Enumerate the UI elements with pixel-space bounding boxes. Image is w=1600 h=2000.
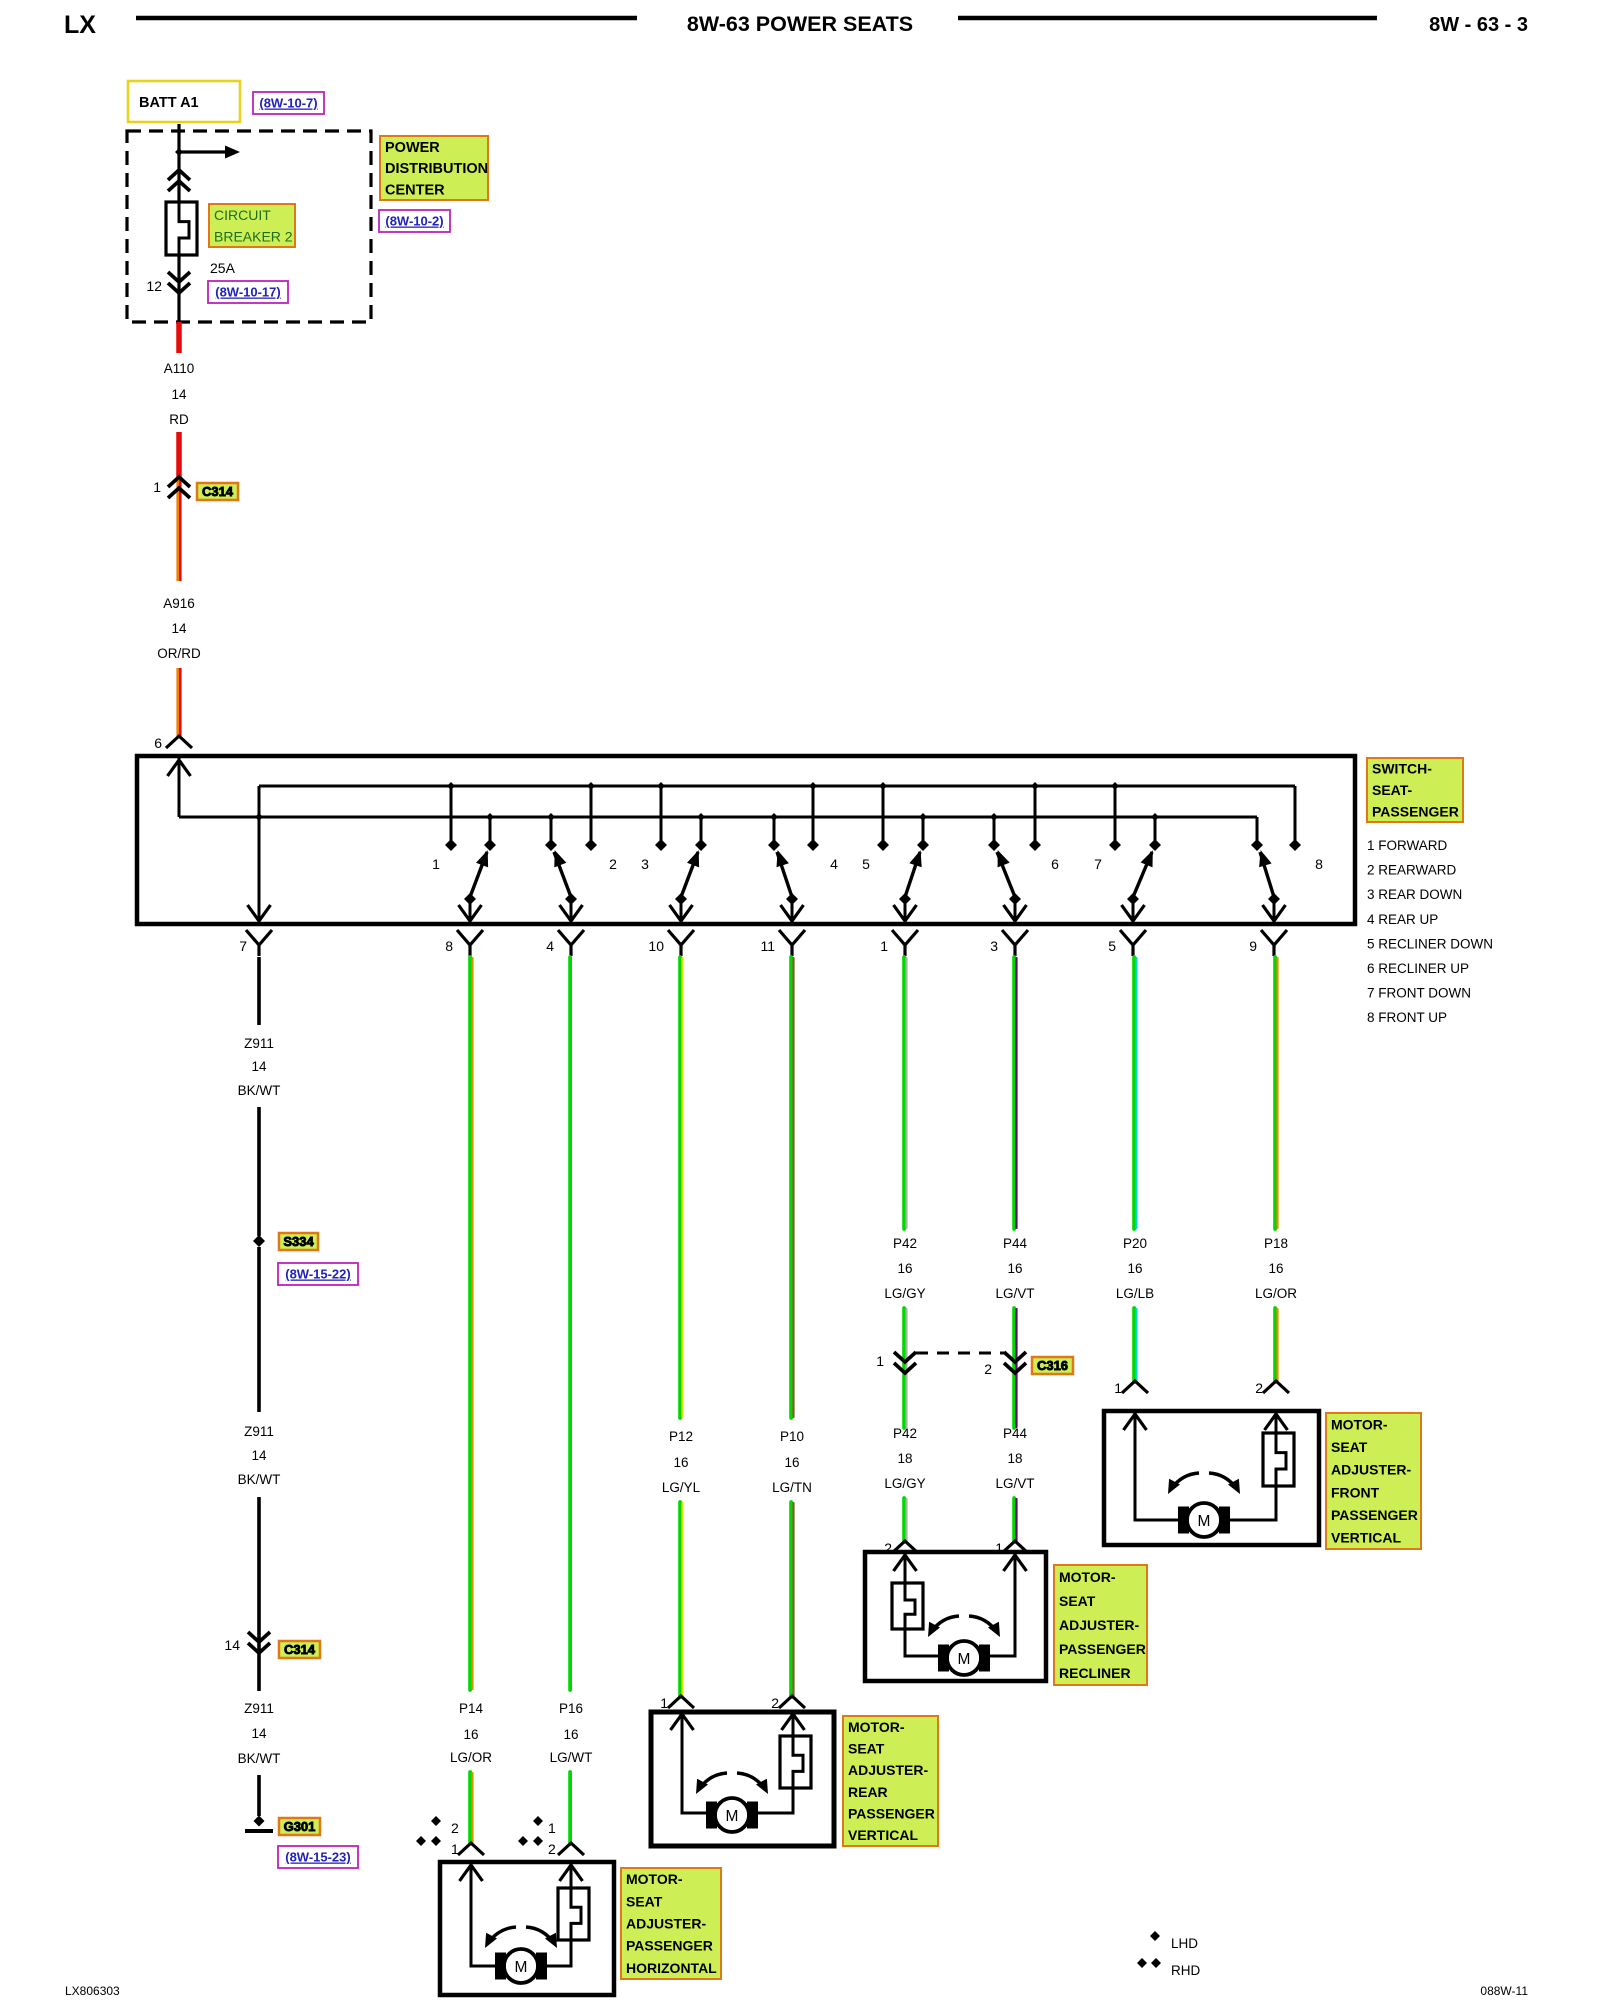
wire P44 18 segment 4 (1014, 1498, 1016, 1542)
wire Z911 segment 4 (257, 1497, 261, 1691)
connector tag C314 (197, 483, 238, 500)
svg-text:BK/WT: BK/WT (238, 1751, 281, 1766)
svg-text:2: 2 (771, 1695, 779, 1711)
svg-text:CENTER: CENTER (385, 183, 445, 199)
connector C314 pin 1 terminal (153, 477, 190, 498)
svg-text:VERTICAL: VERTICAL (848, 1827, 918, 1843)
switch 1: feed contact from lower bus (484, 813, 496, 851)
wire P10 segment 2 (791, 1502, 793, 1697)
switch 6: feed contact from lower bus (988, 813, 1000, 851)
recliner motor rotation arrows (928, 1616, 1000, 1637)
svg-text:M: M (1198, 1513, 1211, 1530)
recliner motor internal wiring pin 2 + breaker (892, 1554, 949, 1656)
svg-text:3: 3 (990, 938, 998, 954)
motor input terminal pin 1 (front vertical) (1114, 1380, 1148, 1396)
svg-text:(8W-15-23): (8W-15-23) (285, 1850, 350, 1865)
wire P10 16 LG/TN segment 1 (791, 957, 793, 1418)
svg-text:P42: P42 (893, 1426, 917, 1441)
wire P20 segment 2 (1134, 1308, 1136, 1382)
switch legend list (1367, 838, 1493, 1025)
wire P42 18 segment 4 (904, 1498, 906, 1542)
svg-text:25A: 25A (210, 260, 236, 276)
svg-text:S334: S334 (283, 1234, 314, 1249)
connector terminals (double chevron) above circuit breaker (168, 170, 190, 191)
motor input terminal pin 1 (recliner) (995, 1540, 1028, 1556)
svg-text:8: 8 (1315, 856, 1323, 872)
svg-text:HORIZONTAL: HORIZONTAL (626, 1960, 717, 1976)
lower bus end drop contact (1251, 817, 1263, 851)
svg-text:MOTOR-: MOTOR- (626, 1871, 683, 1887)
svg-text:BK/WT: BK/WT (238, 1083, 281, 1098)
svg-text:ADJUSTER-: ADJUSTER- (848, 1762, 928, 1778)
svg-text:1: 1 (880, 938, 888, 954)
wire: battery feed into PDC (177, 124, 180, 152)
switch 4: feed contact from lower bus (768, 813, 780, 851)
label MOTOR-SEAT ADJUSTER-PASSENGER HORIZONTAL (621, 1868, 721, 1979)
switch output pin 4 terminal (546, 930, 584, 956)
switch 5: throw label 5 (862, 856, 870, 872)
svg-text:4: 4 (546, 938, 554, 954)
svg-text:PASSENGER: PASSENGER (1372, 803, 1459, 819)
svg-text:SWITCH-: SWITCH- (1372, 761, 1432, 777)
switch 7: movable pole and arm to pin 5 (1122, 850, 1153, 921)
wire A916 14 OR/RD upper segment (178, 480, 181, 581)
rear vertical motor internal wiring pin 2 + breaker (757, 1713, 811, 1813)
throw label 8 (1315, 856, 1323, 872)
switch pin 6 terminal (154, 735, 192, 751)
svg-text:16: 16 (784, 1455, 799, 1470)
svg-text:14: 14 (224, 1637, 240, 1653)
svg-text:6: 6 (1051, 856, 1059, 872)
svg-text:(8W-15-22): (8W-15-22) (285, 1267, 350, 1282)
svg-text:1 FORWARD: 1 FORWARD (1367, 838, 1448, 853)
switch pin 7 output terminal (239, 930, 272, 956)
switch 3: movable pole and arm to pin 10 (670, 850, 700, 921)
svg-text:14: 14 (251, 1726, 267, 1741)
wire A916 lower segment (178, 668, 181, 736)
svg-text:VERTICAL: VERTICAL (1331, 1530, 1401, 1546)
switch 5: stationary contact from upper bus (throw 5) (877, 782, 889, 851)
svg-text:1: 1 (432, 856, 440, 872)
svg-text:16: 16 (1127, 1261, 1142, 1276)
reference (8W-15-22) (278, 1263, 358, 1285)
switch 1: movable pole and arm to pin 8 (459, 850, 489, 921)
svg-text:16: 16 (1007, 1261, 1022, 1276)
svg-text:LG/GY: LG/GY (884, 1476, 925, 1491)
ground G301 symbol (245, 1816, 273, 1832)
label POWER DISTRIBUTION CENTER (380, 136, 488, 200)
switch 6: stationary contact from upper bus (throw 6) (1029, 782, 1041, 851)
connector terminals (double chevron) at PDC output (168, 272, 190, 293)
svg-text:LG/OR: LG/OR (450, 1750, 492, 1765)
connector C314 lower, pin 14 (224, 1632, 270, 1653)
svg-text:P44: P44 (1003, 1236, 1028, 1251)
svg-text:P14: P14 (459, 1701, 484, 1716)
label 25A rating (210, 260, 236, 276)
wire P14 segment 2 (470, 1772, 472, 1844)
wire label Z911 14 BK/WT (1) (238, 1036, 281, 1098)
connector tag C316 (1032, 1357, 1073, 1374)
switch output pin 5 terminal (1108, 930, 1146, 956)
wire P14 16 LG/OR segment 1 (470, 957, 472, 1690)
switch 3: throw label 3 (641, 856, 649, 872)
svg-text:5: 5 (862, 856, 870, 872)
motor box MOTOR-SEAT ADJUSTER-PASSENGER HORIZONTAL (440, 1862, 614, 1995)
svg-text:P42: P42 (893, 1236, 917, 1251)
svg-text:PASSENGER: PASSENGER (1059, 1641, 1146, 1657)
svg-text:6: 6 (154, 735, 162, 751)
switch output pin 10 terminal (648, 930, 694, 956)
switch 4: movable pole and arm to pin 11 (777, 850, 804, 921)
svg-text:6 RECLINER UP: 6 RECLINER UP (1367, 961, 1469, 976)
LHD/RHD pin markers at P14 (416, 1816, 459, 1857)
motor box MOTOR-SEAT ADJUSTER-PASSENGER RECLINER (865, 1552, 1046, 1681)
switch output pin 3 terminal (990, 930, 1028, 956)
svg-text:8 FRONT UP: 8 FRONT UP (1367, 1010, 1447, 1025)
svg-text:P10: P10 (780, 1429, 804, 1444)
svg-text:2: 2 (609, 856, 617, 872)
upper bus end drop contact, throw 8 (1289, 786, 1301, 851)
svg-text:LG/VT: LG/VT (995, 1286, 1034, 1301)
svg-text:PASSENGER: PASSENGER (626, 1938, 713, 1954)
svg-text:LG/VT: LG/VT (995, 1476, 1034, 1491)
svg-text:PASSENGER: PASSENGER (1331, 1507, 1418, 1523)
connector C316 pin 1 terminal (876, 1352, 916, 1373)
svg-text:G301: G301 (284, 1819, 316, 1834)
ground tag G301 (279, 1818, 320, 1835)
wire P12 16 LG/YL segment 1 (680, 957, 682, 1418)
svg-text:MOTOR-: MOTOR- (1059, 1569, 1116, 1585)
svg-text:CIRCUIT: CIRCUIT (214, 207, 271, 223)
wire label P44 16 LG/VT (995, 1236, 1034, 1301)
rear vertical motor internal wiring pin 1 (671, 1713, 708, 1813)
svg-text:A916: A916 (163, 596, 195, 611)
switch 1: stationary contact from upper bus (throw 1) (445, 782, 457, 851)
svg-text:16: 16 (673, 1455, 688, 1470)
front vertical motor rotation arrows (1168, 1473, 1240, 1494)
svg-text:RHD: RHD (1171, 1963, 1200, 1978)
svg-text:C314: C314 (284, 1642, 316, 1657)
reference (8W-10-17) (208, 281, 288, 303)
label MOTOR-SEAT ADJUSTER-REAR PASSENGER VERTICAL (843, 1716, 938, 1846)
wire P16 16 LG/WT segment 1 (568, 957, 572, 1690)
svg-text:P44: P44 (1003, 1426, 1028, 1441)
svg-text:16: 16 (563, 1727, 578, 1742)
wire label Z911 14 BK/WT (2) (238, 1424, 281, 1487)
wire label P14 16 LG/OR (450, 1701, 492, 1765)
footer drawing number 088W-11 (1480, 1984, 1528, 1998)
label CIRCUIT BREAKER 2 (209, 204, 295, 247)
switch 7: stationary contact from upper bus (throw 7) (1109, 782, 1121, 851)
switch 7: throw label 7 (1094, 856, 1102, 872)
wire P18 segment 2 (1275, 1308, 1277, 1382)
wire Z911 from pin 7, segment 1 (257, 957, 261, 1025)
rear vertical motor rotation arrows (696, 1773, 768, 1794)
wire A110 lower segment (176, 432, 182, 477)
svg-text:PASSENGER: PASSENGER (848, 1806, 935, 1822)
svg-text:2: 2 (1255, 1380, 1263, 1396)
svg-text:ADJUSTER-: ADJUSTER- (1331, 1462, 1411, 1478)
feed wire from pin 6 to lower bus (168, 758, 1258, 817)
legend RHD marker (1137, 1958, 1200, 1978)
svg-text:1: 1 (876, 1353, 884, 1369)
motor input terminal (horizontal, P16) (558, 1843, 584, 1855)
return bus (upper) to pin 7 (248, 786, 1296, 921)
svg-text:16: 16 (1268, 1261, 1283, 1276)
svg-text:SEAT: SEAT (626, 1893, 663, 1909)
svg-text:C316: C316 (1037, 1358, 1068, 1373)
motor box MOTOR-SEAT ADJUSTER-REAR PASSENGER VERTICAL (651, 1712, 834, 1846)
switch 2: throw label 2 (609, 856, 617, 872)
wire P44 16-18 segment 2 through C316 (1014, 1308, 1016, 1428)
svg-text:088W-11: 088W-11 (1480, 1984, 1528, 1998)
horizontal motor rotation arrows (485, 1927, 557, 1948)
switch 3: stationary contact from upper bus (throw 3) (655, 782, 667, 851)
wire label P20 16 LG/LB (1116, 1236, 1154, 1301)
svg-text:P16: P16 (559, 1701, 583, 1716)
wire P16 segment 2 (568, 1772, 572, 1844)
switch 6: throw label 6 (1051, 856, 1059, 872)
svg-text:BREAKER 2: BREAKER 2 (214, 228, 293, 244)
svg-text:18: 18 (1007, 1451, 1022, 1466)
svg-text:POWER: POWER (385, 140, 440, 156)
svg-text:14: 14 (251, 1448, 267, 1463)
svg-text:RECLINER: RECLINER (1059, 1665, 1131, 1681)
svg-text:P18: P18 (1264, 1236, 1288, 1251)
svg-text:A110: A110 (164, 361, 195, 376)
switch output pin 11 terminal (760, 930, 805, 956)
rear vertical motor M (706, 1798, 758, 1832)
motor box MOTOR-SEAT ADJUSTER-FRONT PASSENGER VERTICAL (1104, 1411, 1319, 1545)
switch 7: feed contact from lower bus (1149, 813, 1161, 851)
svg-text:BK/WT: BK/WT (238, 1472, 281, 1487)
svg-text:LG/WT: LG/WT (550, 1750, 593, 1765)
svg-text:LG/GY: LG/GY (884, 1286, 925, 1301)
svg-text:4 REAR UP: 4 REAR UP (1367, 912, 1438, 927)
svg-text:SEAT: SEAT (1059, 1593, 1096, 1609)
svg-text:LX806303: LX806303 (65, 1984, 120, 1998)
switch 5: feed contact from lower bus (917, 813, 929, 851)
switch output pin 8 terminal (445, 930, 483, 956)
svg-text:8: 8 (445, 938, 453, 954)
connector tag C314 lower (279, 1641, 320, 1658)
switch box SWITCH-SEAT-PASSENGER outline (137, 756, 1355, 924)
wire P20 16 LG/LB segment 1 (1134, 957, 1136, 1229)
svg-text:Z911: Z911 (244, 1701, 274, 1716)
svg-text:C314: C314 (202, 484, 234, 499)
svg-text:12: 12 (146, 278, 162, 294)
svg-text:1: 1 (548, 1820, 556, 1836)
label MOTOR-SEAT ADJUSTER-PASSENGER RECLINER (1054, 1565, 1147, 1685)
wire label P44 18 LG/VT (995, 1426, 1034, 1491)
svg-text:(8W-10-7): (8W-10-7) (259, 96, 317, 111)
svg-text:2: 2 (984, 1361, 992, 1377)
svg-text:M: M (726, 1808, 739, 1825)
svg-text:LG/LB: LG/LB (1116, 1286, 1154, 1301)
switch 2: stationary contact from upper bus (throw 2) (585, 782, 597, 851)
wire label A916 14 OR/RD (157, 596, 201, 661)
motor input terminal pin 2 (recliner) (884, 1540, 918, 1556)
switch output pin 9 terminal (1249, 930, 1287, 956)
splice tag S334 (279, 1233, 318, 1250)
svg-text:8W-63 POWER SEATS: 8W-63 POWER SEATS (687, 12, 913, 36)
svg-text:16: 16 (463, 1727, 478, 1742)
pin 12 label (146, 278, 162, 294)
svg-text:16: 16 (897, 1261, 912, 1276)
svg-text:FRONT: FRONT (1331, 1484, 1380, 1500)
svg-text:DISTRIBUTION: DISTRIBUTION (385, 161, 488, 177)
wire label A110 14 RD (164, 361, 195, 427)
wire label Z911 14 BK/WT (3) (238, 1701, 281, 1766)
svg-text:7: 7 (1094, 856, 1102, 872)
wire label P18 16 LG/OR (1255, 1236, 1297, 1301)
svg-text:1: 1 (1114, 1380, 1122, 1396)
svg-text:LHD: LHD (1171, 1936, 1198, 1951)
battery feed BATT A1 (128, 81, 240, 122)
motor input terminal (horizontal, P14) (458, 1843, 484, 1855)
wire label P42 18 LG/GY (884, 1426, 925, 1491)
svg-text:OR/RD: OR/RD (157, 646, 201, 661)
svg-text:SEAT: SEAT (1331, 1439, 1368, 1455)
switch 2: feed contact from lower bus (545, 813, 557, 851)
wire: junction to breaker (177, 152, 180, 202)
label SWITCH-SEAT-PASSENGER (1367, 758, 1463, 822)
svg-text:(8W-10-2): (8W-10-2) (385, 214, 443, 229)
switch 8: movable pole and arm to pin 9 (1259, 850, 1285, 921)
motor input terminal pin 1 (rear vertical) (660, 1695, 694, 1711)
svg-text:LG/YL: LG/YL (662, 1480, 701, 1495)
svg-text:P12: P12 (669, 1429, 693, 1444)
power distribution center dashed box (127, 131, 371, 322)
reference (8W-10-2) (379, 210, 450, 232)
recliner motor internal wiring pin 1 (979, 1554, 1027, 1656)
svg-text:M: M (958, 1651, 971, 1668)
svg-text:14: 14 (251, 1059, 267, 1074)
svg-text:2: 2 (451, 1820, 459, 1836)
svg-text:MOTOR-: MOTOR- (1331, 1416, 1388, 1432)
reference (8W-10-7) (253, 92, 324, 114)
svg-text:2 REARWARD: 2 REARWARD (1367, 863, 1457, 878)
switch 5: movable pole and arm to pin 1 (894, 850, 922, 921)
svg-text:ADJUSTER-: ADJUSTER- (626, 1916, 706, 1932)
motor input terminal pin 2 (rear vertical) (771, 1695, 805, 1711)
svg-text:1: 1 (153, 479, 161, 495)
svg-text:SEAT: SEAT (848, 1741, 885, 1757)
svg-text:Z911: Z911 (244, 1424, 274, 1439)
svg-text:LG/OR: LG/OR (1255, 1286, 1297, 1301)
svg-text:2: 2 (548, 1841, 556, 1857)
svg-text:Z911: Z911 (244, 1036, 274, 1051)
svg-text:3 REAR DOWN: 3 REAR DOWN (1367, 887, 1462, 902)
svg-text:5: 5 (1108, 938, 1116, 954)
svg-text:RD: RD (169, 412, 189, 427)
wire Z911 segment 6 (257, 1775, 261, 1816)
svg-text:LX: LX (64, 11, 96, 39)
horizontal motor M (495, 1949, 547, 1983)
svg-text:M: M (515, 1959, 528, 1976)
svg-text:MOTOR-: MOTOR- (848, 1719, 905, 1735)
front vertical motor internal wiring pin 1 (1124, 1413, 1189, 1520)
legend LHD marker (1150, 1931, 1198, 1951)
svg-text:10: 10 (648, 938, 664, 954)
switch 6: movable pole and arm to pin 3 (997, 850, 1027, 921)
switch 1: throw label 1 (432, 856, 440, 872)
front vertical motor M (1178, 1503, 1230, 1537)
label MOTOR-SEAT ADJUSTER-FRONT PASSENGER VERTICAL (1326, 1413, 1421, 1549)
svg-text:BATT A1: BATT A1 (139, 95, 199, 111)
wire A110 14 RD (red) upper segment (176, 322, 182, 353)
horizontal motor internal wiring pin 2 + breaker (537, 1864, 589, 1966)
svg-text:14: 14 (171, 387, 187, 402)
LHD/RHD pin markers at P16 (518, 1816, 556, 1857)
svg-text:1: 1 (660, 1695, 668, 1711)
svg-text:4: 4 (830, 856, 838, 872)
wire label P12 16 LG/YL (662, 1429, 701, 1495)
header: page title bar (64, 11, 1528, 39)
wire P12 segment 2 (680, 1502, 682, 1697)
wire P42 16 LG/GY segment 1 (904, 957, 906, 1229)
wire label P16 16 LG/WT (550, 1701, 593, 1765)
wire label P10 16 LG/TN (772, 1429, 812, 1495)
svg-text:18: 18 (897, 1451, 912, 1466)
svg-text:14: 14 (171, 621, 187, 636)
svg-text:9: 9 (1249, 938, 1257, 954)
motor input terminal pin 2 (front vertical) (1255, 1380, 1289, 1396)
svg-text:8W - 63 - 3: 8W - 63 - 3 (1429, 14, 1528, 36)
wire Z911 segment 3 (257, 1247, 261, 1412)
switch 3: feed contact from lower bus (695, 813, 707, 851)
wire Z911 segment 2 (257, 1107, 261, 1236)
connector C316 dashed link (916, 1352, 1004, 1355)
front vertical motor internal wiring pin 2 + breaker (1220, 1413, 1294, 1520)
switch output pin 1 terminal (880, 930, 918, 956)
circuit breaker CB2 symbol (166, 202, 197, 255)
svg-text:SEAT-: SEAT- (1372, 782, 1413, 798)
switch 4: stationary contact from upper bus (throw 4) (807, 782, 819, 851)
svg-text:P20: P20 (1123, 1236, 1147, 1251)
footer sheet number LX806303 (65, 1984, 120, 1998)
svg-text:LG/TN: LG/TN (772, 1480, 812, 1495)
svg-text:11: 11 (760, 938, 775, 954)
switch 4: throw label 4 (830, 856, 838, 872)
splice S334 (253, 1235, 265, 1247)
wire P18 16 LG/OR segment 1 (1275, 957, 1277, 1229)
wire label P42 16 LG/GY (884, 1236, 925, 1301)
wire P44 16 LG/VT segment 1 (1014, 957, 1016, 1229)
connector C316 pin 2 terminal (984, 1352, 1026, 1377)
svg-text:5 RECLINER DOWN: 5 RECLINER DOWN (1367, 936, 1493, 951)
recliner motor M (938, 1641, 990, 1675)
reference (8W-15-23) (278, 1846, 358, 1868)
svg-text:3: 3 (641, 856, 649, 872)
svg-text:7: 7 (239, 938, 247, 954)
wire P42 16-18 segment 2 through C316 (904, 1308, 906, 1428)
svg-text:(8W-10-17): (8W-10-17) (215, 285, 280, 300)
switch 2: movable pole and arm to pin 4 (554, 850, 583, 921)
svg-text:REAR: REAR (848, 1784, 888, 1800)
wire: breaker to PDC pin 12 (177, 255, 180, 322)
horizontal motor internal wiring pin 1 (460, 1864, 506, 1966)
junction node in PDC with branch arrow (175, 146, 240, 159)
svg-text:ADJUSTER-: ADJUSTER- (1059, 1617, 1139, 1633)
svg-text:7 FRONT DOWN: 7 FRONT DOWN (1367, 986, 1471, 1001)
